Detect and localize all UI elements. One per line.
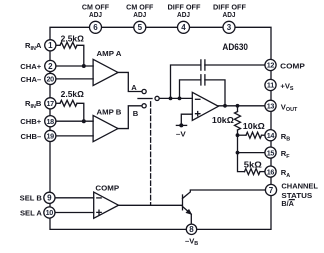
transistor Q1 base bar (182, 195, 184, 210)
pin 19 CHB- (45, 130, 56, 141)
svg-text:17: 17 (46, 99, 54, 108)
wire: node B down to 5k (238, 153, 245, 172)
op-amp AMP B (93, 115, 118, 141)
wire: CHB+ pin18 to AMP B upper input (50, 120, 93, 122)
pin 6 CM OFF ADJ (90, 21, 102, 33)
resistor 2.5k A zigzag (60, 42, 77, 48)
svg-text:CHANNEL: CHANNEL (281, 182, 318, 191)
-V supply symbol (179, 123, 183, 127)
resistor 10k vertical (237, 106, 239, 112)
contact A (142, 89, 146, 93)
pin 13 VOUT (265, 100, 276, 111)
wire: comparator output to Q1 base (119, 204, 182, 206)
svg-text:9: 9 (47, 194, 52, 203)
capacitor C1 (to COMP pin 12) wires (171, 65, 266, 98)
svg-text:4: 4 (181, 23, 186, 32)
resistor 10k horizontal to RB (238, 134, 247, 136)
svg-text:SEL B: SEL B (20, 194, 43, 203)
svg-text:19: 19 (46, 132, 54, 141)
svg-text:8: 8 (189, 225, 194, 234)
comparator plus mark (97, 210, 101, 214)
node: lower cap tap (178, 97, 182, 101)
wire: SEL B to comparator (50, 197, 94, 199)
svg-text:B: B (133, 109, 139, 118)
wire: 2.5k B to CHB+ node (77, 103, 84, 121)
wire: U1 output to VOUT pin 13 (218, 105, 265, 107)
svg-text:ADJ: ADJ (133, 12, 146, 19)
pin 3 DIFF OFF ADJ (223, 21, 235, 33)
node: upper cap tap (169, 97, 173, 101)
svg-text:CHB–: CHB– (21, 132, 42, 141)
svg-text:10kΩ: 10kΩ (212, 116, 235, 125)
svg-text:CM OFF: CM OFF (126, 5, 154, 12)
svg-text:2: 2 (48, 62, 53, 71)
pin 2 CHA+ (45, 60, 56, 71)
pin 7 CHANNEL STATUS (265, 184, 276, 195)
svg-text:AD630: AD630 (222, 42, 248, 52)
svg-text:6: 6 (93, 23, 98, 32)
svg-text:CHA+: CHA+ (20, 62, 41, 71)
node: C2 right tap on output (223, 104, 227, 108)
svg-text:10: 10 (46, 208, 54, 217)
capacitor C2 (local feedback) wires (180, 80, 226, 106)
pin 20 CHA- (45, 73, 56, 84)
pin 15 RF (265, 147, 276, 158)
svg-text:COMP: COMP (95, 184, 119, 193)
wire: 2.5k A to CHA+ node (77, 45, 84, 66)
pin 17 RINB (45, 98, 56, 109)
svg-text:B/A: B/A (281, 199, 294, 208)
svg-text:AMP A: AMP A (97, 49, 122, 58)
U1 minus mark (196, 98, 200, 100)
svg-text:1: 1 (48, 41, 53, 50)
wire: CHA- pin20 to AMP A lower input (50, 78, 93, 80)
comparator minus mark (97, 197, 101, 199)
Q1 emitter (183, 207, 192, 225)
svg-text:–V: –V (176, 130, 187, 139)
pin 10 SEL A (44, 207, 55, 218)
pin 16 RA (265, 166, 276, 177)
wire: pole to integrator inverting input (159, 97, 192, 99)
svg-text:AMP B: AMP B (97, 107, 122, 116)
wire: CHB- pin19 to AMP B lower input (50, 135, 93, 137)
svg-text:2.5kΩ: 2.5kΩ (61, 90, 85, 99)
pin 14 RB (265, 130, 276, 141)
svg-text:DIFF OFF: DIFF OFF (213, 5, 247, 12)
pin 9 SEL B (44, 192, 55, 203)
node B (divider) (236, 151, 240, 155)
svg-text:DIFF OFF: DIFF OFF (168, 5, 202, 12)
svg-text:ADJ: ADJ (177, 12, 190, 19)
pin 4 DIFF OFF ADJ (178, 21, 190, 33)
svg-text:14: 14 (267, 131, 275, 140)
resistor R(2.5k) A: pin1 lead (56, 44, 60, 46)
svg-text:CHA–: CHA– (21, 75, 42, 84)
pin 8 -VB (186, 224, 196, 234)
svg-text:3: 3 (227, 23, 232, 32)
op-amp AMP A (93, 59, 118, 85)
svg-text:10kΩ: 10kΩ (243, 122, 266, 131)
svg-text:A: A (131, 83, 137, 92)
switch arm (138, 98, 152, 100)
resistor R(2.5k) B: pin17 lead (56, 102, 60, 104)
svg-text:CHB+: CHB+ (20, 117, 41, 126)
Q1 emitter arrow (186, 209, 193, 215)
svg-text:13: 13 (267, 102, 275, 111)
Q1 collector (183, 190, 266, 198)
svg-text:5kΩ: 5kΩ (244, 160, 263, 169)
op-amp U1 (output integrator) (192, 92, 218, 120)
overline on A of B/A (289, 199, 294, 201)
capacitor C1 plates (201, 60, 205, 70)
svg-text:11: 11 (267, 81, 274, 90)
svg-text:COMP: COMP (280, 62, 305, 71)
svg-text:12: 12 (267, 61, 275, 70)
pin 12 COMP (265, 59, 276, 70)
pin 11 +VS (265, 79, 276, 90)
pin 5 CM OFF ADJ (134, 21, 146, 33)
node: divider tap on output (236, 104, 240, 108)
pin 18 CHB+ (45, 116, 56, 127)
wire: outer rail rectangle (top/left/right/bottom buses) (50, 27, 271, 229)
svg-text:2.5kΩ: 2.5kΩ (61, 34, 85, 43)
wire: AMP B output to contact B (118, 106, 142, 129)
svg-text:15: 15 (267, 148, 275, 157)
svg-text:CM OFF: CM OFF (82, 5, 110, 12)
svg-text:16: 16 (267, 167, 275, 176)
wire: CHA+ pin2 to AMP A upper input (50, 65, 93, 67)
node: junction on CHA+ (82, 64, 86, 68)
wire: AMP A output to contact A (118, 72, 142, 91)
resistor 2.5k B zigzag (60, 100, 77, 106)
wire: SEL A to comparator (50, 212, 94, 214)
resistor 5k to RA (245, 169, 261, 175)
svg-text:ADJ: ADJ (223, 12, 236, 19)
svg-text:20: 20 (46, 75, 54, 84)
pin 1 RINA (45, 40, 56, 51)
node: junction on CHB+ (82, 119, 86, 123)
svg-text:ADJ: ADJ (89, 12, 102, 19)
node A (divider) (236, 133, 240, 137)
switch pole contact (155, 96, 159, 100)
capacitor C2 plates (201, 75, 205, 85)
svg-text:SEL A: SEL A (20, 208, 42, 217)
wire: U1 + input to -V (181, 114, 192, 125)
contact B (142, 104, 146, 108)
svg-text:7: 7 (269, 186, 274, 195)
svg-text:18: 18 (46, 117, 54, 126)
svg-text:5: 5 (138, 23, 143, 32)
comparator COMP (94, 192, 119, 218)
dashed control line from switch to comparator (150, 102, 152, 205)
U1 plus mark (196, 112, 200, 116)
wire: node B to RF pin 15 (238, 152, 266, 154)
